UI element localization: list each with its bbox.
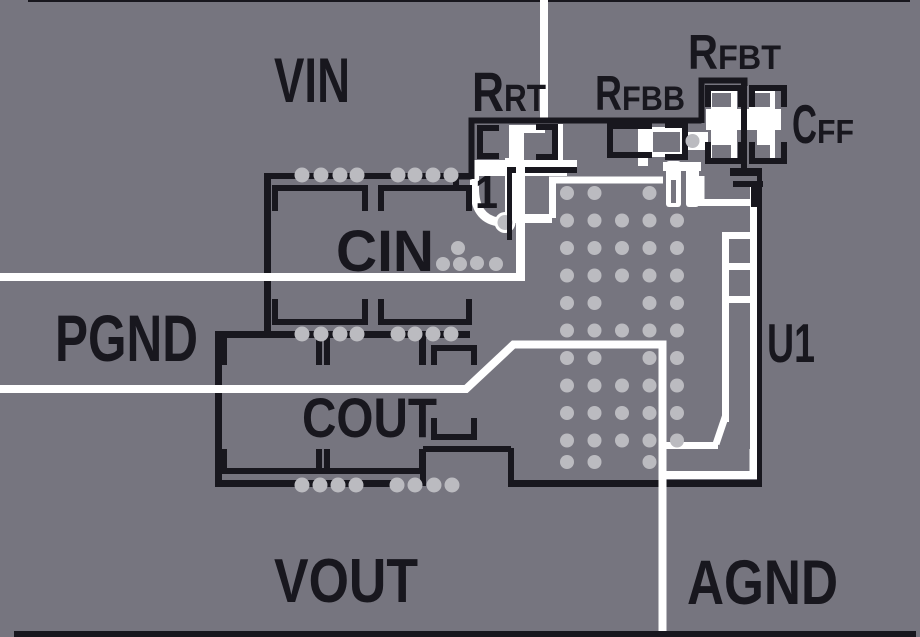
COUT bottom arm (220, 468, 426, 474)
via row VOUT (295, 478, 310, 493)
wire: white band over SW fingers (663, 162, 701, 171)
top board-edge bar right (548, 0, 910, 2)
wire: white riser to pin1 pad (516, 163, 525, 281)
pad center RFBT bottom (712, 145, 731, 158)
wire: FB bottom run (663, 442, 718, 449)
wire: FB chamfer (716, 416, 726, 444)
VIN copper outline left (264, 173, 271, 338)
VIN copper outline top (264, 173, 470, 179)
capacitor CFF top pad bracket (749, 85, 787, 107)
COUT top riser b (316, 338, 322, 365)
svg-text:1: 1 (475, 166, 498, 218)
pad center CFF bottom (751, 145, 770, 158)
via cluster near CIN (436, 257, 450, 271)
wire: FB white strip right (750, 183, 757, 478)
resistor RFBT bottom pad bracket (705, 142, 744, 164)
step left vertical (420, 452, 426, 486)
small component top bracket (431, 345, 477, 365)
capacitor CIN pad 2 top bracket (378, 185, 472, 211)
U1 top right corner (751, 181, 762, 207)
COUT bottom riser c (419, 449, 426, 474)
node: RFBT white vertical band (711, 90, 737, 162)
wire: white step at thermal pad top right (701, 176, 757, 203)
COUT bottom riser b (316, 449, 322, 474)
svg-text:VOUT: VOUT (274, 547, 418, 616)
pad center RFBT top (712, 93, 731, 107)
resistor RRT pad left bracket (477, 125, 499, 159)
wire: white stub from via to thermal pad (505, 214, 552, 223)
U1 right edge (757, 176, 762, 487)
via row VIN (295, 168, 310, 183)
wire: white nub right of RRT pad (557, 124, 563, 162)
svg-text:COUT: COUT (302, 386, 437, 449)
COUT bottom riser a (220, 449, 227, 474)
wire: white block right of pin 1 (505, 158, 524, 216)
U1 pin ladder rung low (722, 296, 750, 303)
VOUT bottom line left (215, 480, 395, 487)
pin 1 trace (507, 167, 577, 173)
pad center cross right (747, 130, 757, 148)
trace from RT pin with hook (456, 177, 472, 190)
via ring at pin 1 (495, 212, 516, 233)
capacitor CFF bottom pad bracket (749, 142, 787, 164)
resistor RRT pad right bracket (536, 124, 558, 160)
svg-text:U1: U1 (767, 312, 815, 374)
slot in SW finger (671, 180, 676, 203)
wire: SW finger 1 (666, 161, 681, 207)
resistor RFBB pad right bracket (665, 122, 688, 160)
VOUT bottom line right (508, 480, 762, 487)
node: RFBB right pad white (648, 127, 685, 157)
via at pin 1 (498, 215, 513, 230)
node: RFBT/CFF white cross horizontal (706, 109, 781, 130)
resistor RFBB pad left bracket (607, 123, 652, 158)
svg-text:PGND: PGND (55, 301, 198, 375)
capacitor CIN pad 1 top bracket (272, 185, 368, 211)
wire: white belt under RRT pads (469, 160, 567, 176)
trace T bar (730, 168, 762, 176)
node: thermal pad top-left white boundary (553, 180, 664, 218)
wire: RFBB pad connector (638, 126, 648, 166)
small component bottom bracket (431, 418, 477, 440)
via under RFBB (686, 134, 700, 148)
via row PGND mid (295, 327, 310, 342)
wire: white PGND rail upper (0, 273, 516, 281)
node: CFF white vertical band (749, 90, 775, 162)
wire: white jog below RT trace (512, 125, 545, 133)
wire: white link pad to cross (680, 132, 708, 150)
U1 pin ladder rung top (722, 232, 750, 239)
trace RFBT center vertical (741, 83, 747, 169)
resistor RFBT top pad bracket (705, 85, 744, 107)
wire: AGND inner corner white (666, 449, 754, 475)
wire: SW finger 2 (686, 162, 699, 207)
pad center CFF top (751, 93, 770, 107)
wire: white channel between RRT pads (509, 125, 524, 171)
PGND mid line (215, 331, 470, 338)
capacitor CIN pad 2 bottom bracket (378, 299, 472, 325)
wire: white above pin1 trace (512, 160, 577, 167)
svg-text:AGND: AGND (687, 548, 838, 618)
capacitor CIN pad 1 bottom bracket (272, 299, 368, 325)
step horizontal (423, 446, 511, 452)
capacitor COUT outline left (215, 331, 222, 486)
trace over via at pin 1 (507, 205, 512, 240)
step right vertical (508, 448, 514, 487)
COUT top riser c (419, 338, 426, 365)
U1 top right horizontal (733, 181, 763, 187)
wire: white channel left of pin 1 (475, 163, 499, 222)
U1 pin ladder left strip (722, 232, 729, 422)
wire: white VIN sense trace vertical from top edge (540, 0, 548, 123)
bottom board-edge bar (14, 631, 916, 637)
pad center RFBB right (653, 132, 680, 152)
via grid thermal pad (560, 186, 684, 469)
top board-edge bar left (28, 0, 540, 2)
wire: white PGND rail lower with diagonal and AGND drop (0, 345, 663, 632)
svg-text:CIN: CIN (336, 219, 434, 284)
U1 pin ladder rung mid (722, 263, 750, 270)
svg-text:VIN: VIN (274, 46, 350, 116)
COUT top riser a (220, 338, 227, 365)
